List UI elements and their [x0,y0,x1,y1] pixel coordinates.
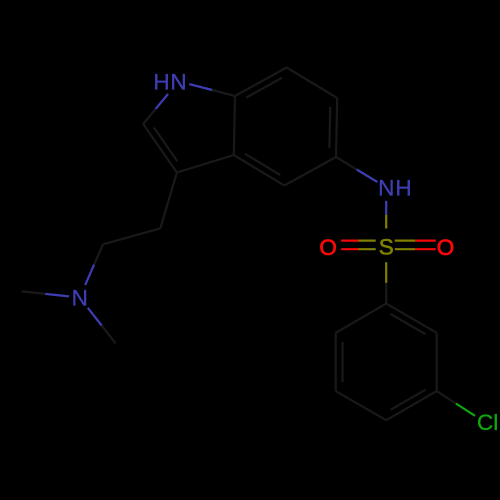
atom label S: sulfonyl sulfur [379,235,394,260]
svg-text:Cl: Cl [477,410,498,435]
bond C3a-C7a (ring fusion) [234,96,235,155]
atom label O: right sulfonyl oxygen [437,235,455,260]
bond C6'-C1' [336,304,387,333]
atom label N2: sulfonamide N-H (text NH) [378,176,412,201]
double bond S=O right [395,241,436,250]
double bond C3'=C4' (phenyl) [386,390,437,421]
bond C3-CH2a (ethyl chain) [160,173,177,229]
bond N2-S [385,201,387,229]
svg-text:N: N [72,286,88,311]
atom label Cl: chlorine on phenyl ring [477,410,498,435]
bond C7-C6 [287,68,338,99]
double bond S=O left [341,241,376,250]
bond C3'-Cl [437,391,475,416]
svg-text:S: S [379,235,394,260]
bond N1-C2 (pyrrole N to C2) [143,94,168,124]
bond C5-C4 [284,157,336,186]
double bond C4=C3a (benzo ring) [234,154,285,186]
atom label N3: dimethylamino nitrogen [72,286,88,311]
svg-text:O: O [437,235,455,260]
bond C4'-C5' [336,391,387,420]
double bond C1'=C2' (phenyl) [386,304,437,335]
double bond C6=C5 (benzo ring) [329,98,337,157]
svg-text:O: O [319,235,337,260]
svg-text:H: H [153,70,169,95]
svg-text:N: N [378,176,394,201]
bond C2'-C3' [436,333,438,391]
double bond C2=C3 (pyrrole) [143,124,177,173]
svg-text:H: H [395,176,411,201]
bond S-C1' (S to phenyl ipso carbon) [385,262,387,303]
atom label N1: indole N-H (text HN) [153,70,186,95]
bond N3-CH3 (lower methyl) [88,308,116,344]
svg-text:N: N [170,70,186,95]
double bond C5'=C6' (phenyl) [336,333,343,391]
bond C3-C3a [177,155,234,173]
bond C7a-N1 [189,84,235,96]
bond C5-N2 (indole C5 to sulfonamide NH) [336,157,377,182]
bond CH2b-N3 (chain to dimethylamino N) [85,244,103,285]
double bond C7a=C7 (benzo ring) [235,68,287,98]
atom label O: left sulfonyl oxygen [319,235,337,260]
bond CH2a-CH2b (ethyl chain) [103,228,160,244]
bond N3-CH3 (left methyl) [22,291,69,296]
